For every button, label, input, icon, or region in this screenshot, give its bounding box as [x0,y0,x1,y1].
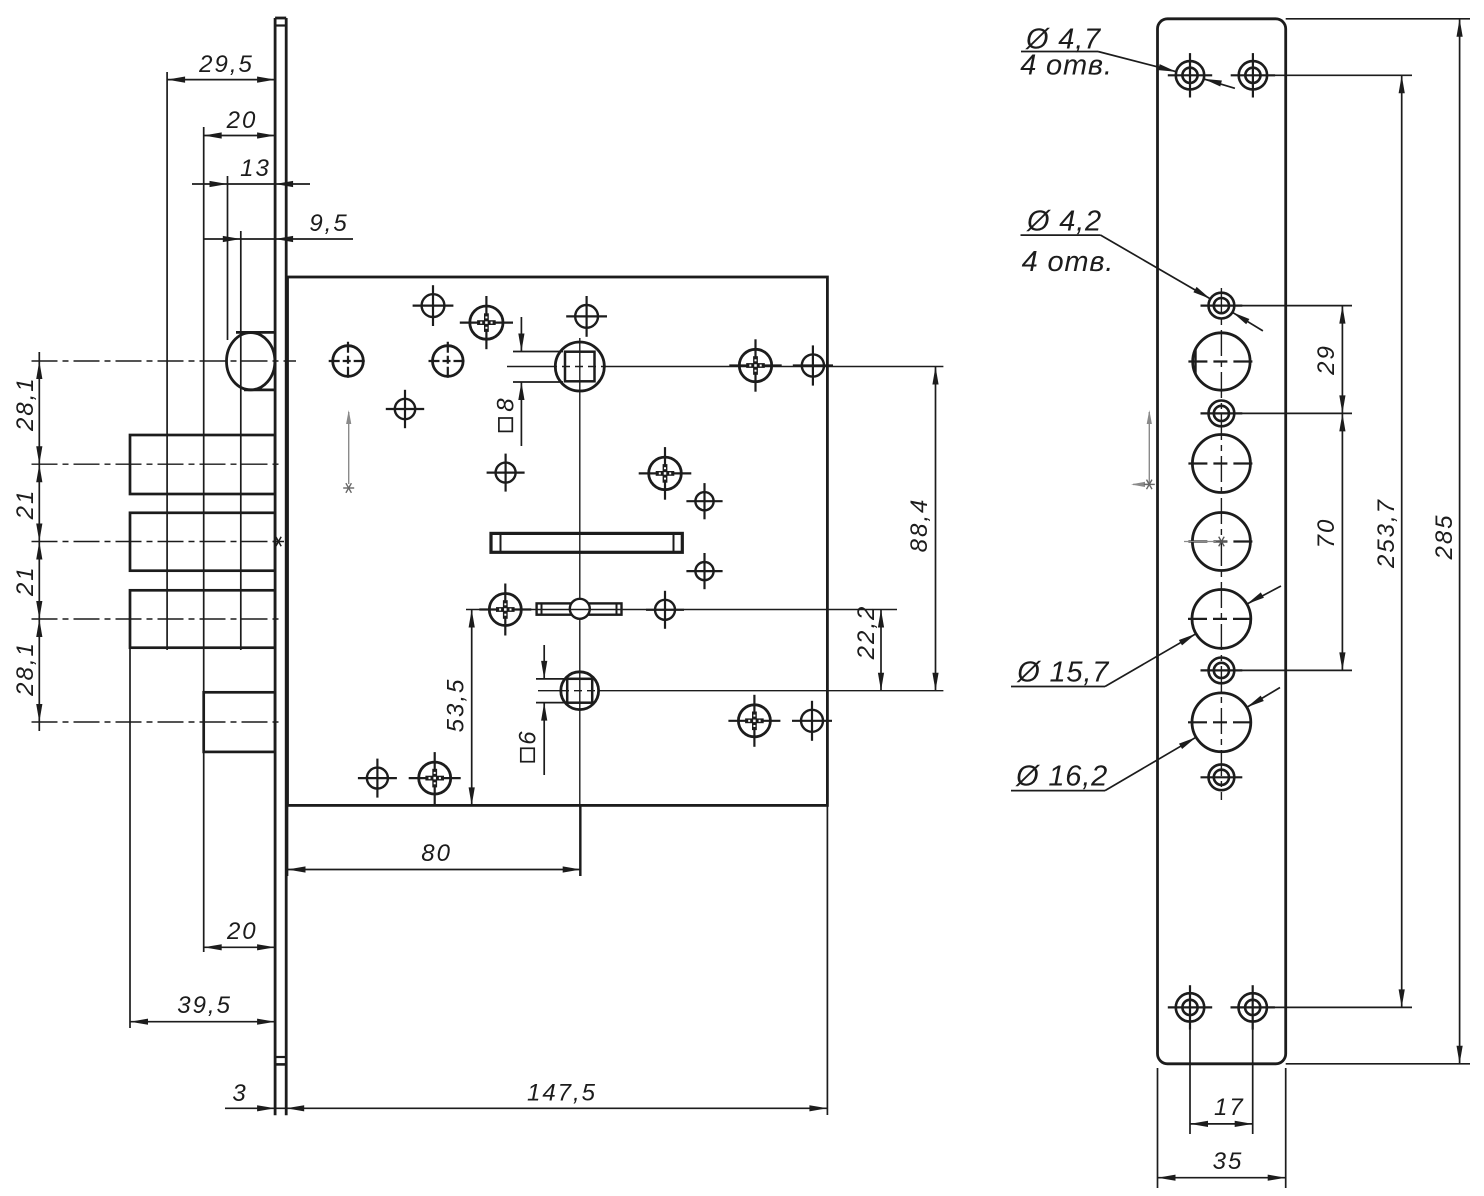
dimension 9,5 [204,210,353,242]
chain dimension line [36,352,42,731]
svg-text:35: 35 [1213,1148,1244,1175]
hole A4 [487,454,525,492]
svg-text:22,2: 22,2 [853,605,880,661]
hole A6 [686,553,722,589]
dimension 28,1 upper [12,376,39,432]
hole 4,2 #3 [1201,658,1243,684]
dimension 28,1 lower [12,641,39,697]
big hole #2 [1188,435,1254,493]
dimension 80 [288,840,581,873]
auxiliary bolt block [204,692,275,752]
hole B2 [429,342,468,381]
svg-text:28,1: 28,1 [12,376,39,432]
svg-text:29,5: 29,5 [198,51,254,78]
hole B4 [792,701,832,741]
centerline deadbolt 3 [32,618,283,620]
faceplate strip (side view) [275,18,286,1115]
dimension square 6 [515,645,567,775]
svg-text:Ø 4,2: Ø 4,2 [1026,206,1102,238]
screw hole 4,7 top-left [1168,53,1212,97]
svg-text:3: 3 [232,1080,247,1107]
screw hole S6 [728,695,780,747]
hole A8 [358,759,397,798]
hole 4,2 #2 [1201,401,1243,427]
extension hole2 [1236,412,1352,414]
extension line x=240.8 [240,231,242,650]
dimension 39,5 [130,992,275,1025]
centerline follower row [604,366,943,368]
centerline lever row [466,609,897,611]
centerline deadbolt 2 [32,541,283,543]
extension body right bottom [826,805,828,1115]
screw hole S4 [479,584,531,636]
dimension 17 [1190,1022,1253,1134]
hole A3 [386,390,424,428]
label diameter 15,7 [1011,586,1281,689]
centerline latch row [32,360,297,362]
extension plate top [1286,18,1470,20]
svg-text:9,5: 9,5 [309,210,348,237]
plate centerline [1220,288,1222,800]
svg-text:20: 20 [226,918,258,945]
svg-text:21: 21 [12,489,39,521]
hole B3 [793,345,833,385]
svg-text:70: 70 [1313,518,1340,549]
big hole #3 with star [1184,513,1254,571]
dimension 285 [1431,19,1463,1064]
big hole 15,7 #1 with flat [1188,333,1254,390]
key slot bar [491,533,682,552]
dimension 20 top [204,107,275,139]
extension line x=227.5 [227,176,229,340]
svg-text:20: 20 [226,107,258,134]
extension line x=167 [166,72,168,650]
extension follower bottom [580,805,582,876]
lower square hole 6 [538,672,600,710]
screw hole S2 [729,339,781,391]
hole A2 [566,296,607,337]
hole 4,2 #1 [1201,293,1243,319]
deadbolt bar 3 [130,590,275,647]
screw hole S3 [639,447,692,500]
dimension 35 [1158,1068,1286,1188]
svg-text:17: 17 [1214,1094,1245,1121]
screw hole S5 [409,752,461,804]
big hole 15,7 #4 [1188,590,1255,649]
label diameter 4,7 [1020,24,1235,89]
dimension 147,5 [286,1080,827,1112]
extension screws top [1267,74,1412,76]
svg-text:88,4: 88,4 [906,498,933,553]
extension screws bottom [1268,1006,1412,1008]
svg-text:28,1: 28,1 [12,641,39,697]
svg-text:285: 285 [1431,513,1458,560]
extension plate bottom [1286,1063,1470,1065]
dimension 70 [1313,413,1346,670]
svg-text:39,5: 39,5 [177,992,232,1019]
latch bolt (side view) [227,332,276,390]
label diameter 16,2 [1011,688,1280,793]
svg-text:147,5: 147,5 [527,1080,597,1107]
centerline aux block [32,721,283,723]
dimension square 8 [493,317,564,446]
dimension 253,7 [1373,75,1405,1007]
hole B1 [329,342,368,381]
dimension 21 lower [12,565,39,597]
screw hole 4,7 top-right [1231,53,1275,97]
screw hole S1 [460,296,513,349]
screw hole 4,7 bottom-left [1168,985,1212,1029]
deadbolt bar 2 [130,513,275,571]
svg-text:13: 13 [240,155,271,182]
dimension 21 upper [12,489,39,521]
origin marker left view [343,410,354,493]
dimension 29,5 [167,51,275,83]
extension hole3 [1236,669,1352,671]
extension line x=203.7 [203,127,205,952]
svg-text:8: 8 [493,396,520,411]
striker plate outline [1158,19,1286,1064]
dimension 53,5 [443,610,475,806]
big hole 16,2 #5 [1188,693,1255,752]
label diameter 4,2 [1021,206,1263,331]
extension body left bottom [287,805,289,876]
screw hole 4,7 bottom-right [1231,985,1275,1029]
hole A5 [686,483,722,519]
hole A7 [646,591,684,629]
svg-text:Ø 16,2: Ø 16,2 [1015,761,1108,793]
dimension 3 [225,1080,286,1111]
extension hole1 [1236,305,1352,307]
svg-text:4 отв.: 4 отв. [1022,246,1114,278]
dimension 88,4 [906,367,939,691]
dimension 22,2 [853,605,884,691]
lock body outline [288,277,828,805]
star marker faceplate [273,537,284,547]
svg-text:6: 6 [515,729,542,744]
svg-text:Ø 15,7: Ø 15,7 [1016,657,1110,689]
centerline deadbolt 1 [32,463,283,465]
hole 4,2 #4 [1201,764,1243,790]
svg-text:4 отв.: 4 отв. [1020,50,1112,82]
svg-text:29: 29 [1313,344,1340,376]
follower square hole [507,338,606,876]
svg-text:21: 21 [12,565,39,597]
hole A1 [413,285,454,326]
origin marker right view [1131,410,1155,489]
dimension 20 bottom [204,918,275,950]
svg-text:253,7: 253,7 [1373,498,1400,569]
svg-text:80: 80 [421,840,452,867]
centerline lower square row [598,690,943,692]
extension line x=130 [129,648,131,1028]
dimension 29 [1313,306,1346,414]
svg-text:53,5: 53,5 [443,678,470,733]
dimension 13 [192,155,310,187]
lever bar [537,599,622,619]
deadbolt bar 1 [130,435,275,494]
